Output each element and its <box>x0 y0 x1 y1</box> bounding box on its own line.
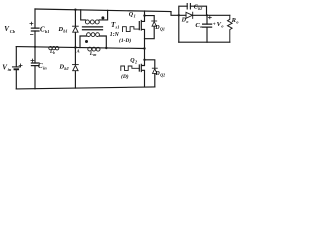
wire top rail <box>35 9 171 12</box>
output bottom wire <box>179 41 230 43</box>
polarity dot winding 2 <box>85 40 88 43</box>
svg-text:in: in <box>43 65 47 70</box>
svg-text:1: 1 <box>134 13 136 18</box>
gate drive wave Q1 <box>123 27 140 32</box>
svg-text:s1: s1 <box>115 24 120 29</box>
inductor L_b <box>49 46 59 50</box>
svg-text:+: + <box>213 22 216 28</box>
wire top right to D_o <box>171 12 186 16</box>
svg-text:(D): (D) <box>121 73 129 80</box>
resistor R_o <box>228 15 233 42</box>
body diode D_Q2 <box>145 60 155 87</box>
transistor Q2 <box>139 49 144 87</box>
svg-text:o: o <box>221 23 223 28</box>
svg-text:b2: b2 <box>64 66 68 71</box>
diode D_b2 <box>73 65 79 71</box>
wire mid (node A line) <box>16 47 144 49</box>
svg-text:o: o <box>236 19 238 24</box>
wire bottom rail <box>16 87 155 89</box>
capacitor C_o <box>206 15 208 42</box>
transformer winding 1 (top) <box>81 10 86 20</box>
junction dots <box>34 9 208 61</box>
svg-text:b1: b1 <box>63 28 67 33</box>
svg-text:Q1: Q1 <box>160 26 165 31</box>
wire C_in branch <box>34 47 36 89</box>
svg-text:(1-D): (1-D) <box>119 37 131 44</box>
wire diode leg D_b1/D_b2 <box>74 10 76 88</box>
transistor Q1 <box>139 11 144 49</box>
transformer winding 2 (1:N) <box>80 36 87 48</box>
svg-text:o: o <box>186 19 188 24</box>
labels <box>2 4 238 79</box>
svg-text:o: o <box>200 24 202 29</box>
capacitor C_b2 branch <box>179 6 187 42</box>
node plus/minus marks for V_Cb <box>30 22 33 34</box>
svg-text:m: m <box>93 52 96 57</box>
svg-text:b2: b2 <box>198 6 202 11</box>
polarity dot winding 1 <box>101 16 104 19</box>
capacitor C_in <box>31 63 39 66</box>
svg-text:b1: b1 <box>45 29 49 34</box>
capacitor C_b1 <box>31 28 39 31</box>
svg-text:2: 2 <box>134 59 137 64</box>
inductor L_m <box>88 47 100 51</box>
svg-text:in: in <box>8 67 12 72</box>
wire C_b1 branch <box>34 9 36 47</box>
svg-text:b: b <box>53 51 55 55</box>
svg-text:A: A <box>76 49 80 54</box>
gate drive wave Q2 <box>121 66 140 70</box>
battery source V_in <box>15 47 17 89</box>
transformer core <box>83 27 103 30</box>
svg-text:Q2: Q2 <box>160 72 165 77</box>
diode D_b1 <box>73 26 79 32</box>
svg-text:Cb: Cb <box>10 29 16 34</box>
diode D_o <box>186 12 193 18</box>
body diode D_Q1 <box>145 16 155 39</box>
